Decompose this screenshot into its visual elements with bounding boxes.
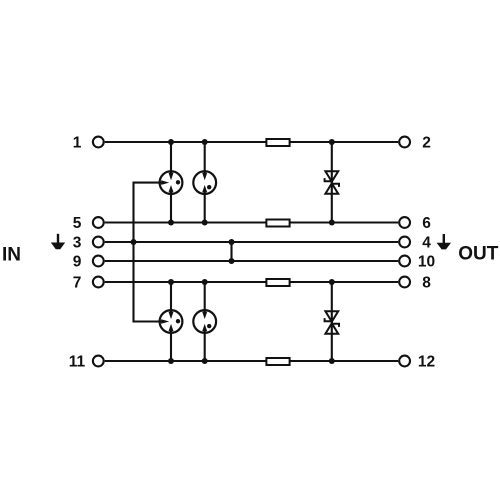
svg-text:OUT: OUT [458, 244, 499, 265]
svg-text:IN: IN [2, 244, 21, 265]
svg-text:8: 8 [422, 274, 431, 291]
svg-text:10: 10 [418, 253, 435, 270]
svg-text:4: 4 [422, 234, 431, 251]
svg-text:6: 6 [422, 215, 431, 232]
svg-text:9: 9 [73, 253, 82, 270]
svg-text:7: 7 [73, 274, 82, 291]
svg-text:2: 2 [422, 134, 431, 151]
svg-text:11: 11 [69, 353, 86, 370]
svg-text:1: 1 [73, 134, 82, 151]
svg-text:3: 3 [73, 234, 82, 251]
svg-text:5: 5 [73, 215, 82, 232]
svg-text:12: 12 [418, 353, 435, 370]
